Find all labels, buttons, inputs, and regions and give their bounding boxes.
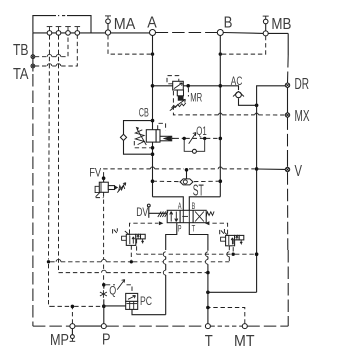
relief valve MR [167,76,188,111]
gauge point 4 in block [75,27,81,36]
svg-text:DV: DV [136,205,148,219]
svg-text:DR: DR [295,76,310,93]
wire: drain column up and to DR port [257,86,286,106]
wire: V pilot rail from FV to drain column [104,167,255,177]
wire: A yoke into DV port A [153,197,184,211]
svg-text:MR: MR [190,90,202,104]
port relief valve right (on b-pilot) [220,229,244,262]
check valve AC [233,91,244,97]
svg-text:B: B [224,15,233,32]
port MP gauge symbol [70,329,76,342]
pilot rail y=306.4 from gauge1 corner to P [50,305,102,307]
wire: DV T stem to T-line [189,223,208,251]
wire: B-line vertical [219,36,221,197]
pilot line into DV left end [130,221,164,234]
svg-text:TA: TA [13,66,29,83]
port B [217,30,223,36]
wire: ST right input from B-line [194,180,220,182]
svg-text:MT: MT [234,333,255,350]
throttle Q1 [189,133,196,144]
gauge point 2 in block [56,27,62,36]
gauge isolator block (top-left box) [33,14,91,33]
junction right valve / spring rail [232,253,235,256]
wire: MP up to pilot rail [71,308,73,324]
wire: Q1 pilot rail [175,137,220,139]
junction drain/V pilot [255,167,259,171]
wire: ST left input from A-line [153,180,180,182]
check valve in CB bypass [120,134,126,140]
orifice mark asterisk [100,290,107,298]
wire: MB to B-line [222,36,266,54]
svg-text:MA: MA [114,16,136,33]
junction T-line/MT [206,306,210,310]
junction FV top [102,176,106,180]
svg-text:TB: TB [13,42,29,59]
junction B-line/MR rail [219,84,223,88]
wire: CB bypass loop [124,121,153,155]
pilot rail y=261.8 (gauge1 to valves) [50,259,229,261]
junction P rail [102,304,106,308]
wire: TB to gauge 3 [35,35,68,57]
enclosure boundary left edge [32,33,34,326]
svg-text:CB: CB [139,106,149,120]
shuttle valve ST [180,168,193,185]
port MB [263,31,268,36]
reducing valve FV [95,178,126,285]
port MA [105,30,110,35]
wire: AC check to drain column [239,98,257,105]
svg-text:A: A [178,201,182,211]
wire: P port up [103,299,105,323]
pilot rail y=272.6 (gauge2 to T-line), jumps [59,270,207,272]
junction A-line/ST pilot [151,179,155,183]
DV spring right [206,211,214,216]
wire: TA to gauge 4 [35,35,78,66]
wire: MT to T-line [210,308,245,324]
gauge point 1 in block [47,27,53,36]
wire: MA to A-line [108,35,151,54]
junction B-line/Q1 rail [219,137,223,141]
svg-text:PC: PC [140,294,152,308]
wire: MR drain / MX pilot rail [173,91,285,115]
enclosure boundary top edge [33,32,288,35]
port TA [31,64,35,68]
wire: pump column to PC outlet [132,309,166,314]
svg-text:T: T [192,224,196,234]
svg-text:T: T [205,333,213,350]
pilot arrow into CB [160,136,175,141]
junction Q1 right [203,137,206,140]
junction A-line/MR rail [151,84,155,88]
wire: gauge line 1 to MP/P rail [49,264,51,306]
svg-text:MP: MP [50,332,69,349]
port DR [285,83,289,87]
junction B-line/ST pilot [219,179,223,183]
wire: DV P stem to pump column [166,223,177,250]
svg-text:MX: MX [295,108,310,125]
pressure compensator PC [126,293,138,309]
pilot with orifice Q to PC [106,280,132,294]
svg-text:FV: FV [89,166,101,180]
wire: B-line to AC check valve [220,86,238,90]
wire: gauge line 2 down [58,35,60,272]
wire: A-line vertical (CB to yoke) [152,142,154,197]
port relief valve left (on a-pilot) [113,228,146,260]
wire: B yoke into DV port B [189,197,220,211]
port A [150,30,156,36]
wire: MR rail from A-line to B-line [153,85,221,87]
junction Q1 left [183,137,186,140]
svg-text:Q: Q [109,284,116,298]
svg-text:V: V [295,163,303,180]
port T [205,324,210,329]
wire: drain column to T-line [208,291,257,293]
junction MB/B-line [219,52,222,55]
DV left position arrows [170,212,178,222]
DV proportional solenoid left [147,204,168,218]
wire: P to PC inlet [104,305,126,307]
junction MA/A-line [151,52,154,55]
junction A-line/CB pilot [151,146,155,150]
junction gauge1/pilot rail [47,260,50,263]
svg-text:A: A [147,15,157,32]
counterbalance valve CB [134,123,165,148]
enclosure boundary right edge [287,33,290,326]
pilot rail y=254 (spring chambers to drain) [137,253,255,255]
DV centre position [182,215,188,217]
svg-text:ST: ST [193,182,204,199]
junction A-line/CB bypass top [151,119,155,123]
port TB [31,55,35,59]
port V [285,167,289,171]
svg-text:MB: MB [271,16,291,33]
junction drain/T-line [206,291,210,295]
directional valve DV body [167,210,206,222]
junction MP rail [71,305,75,309]
svg-text:Q1: Q1 [196,124,207,138]
svg-text:AC: AC [231,74,243,88]
pump column with jumps over pilot rails [163,252,165,315]
junction A-line/CB bypass bottom [151,152,155,156]
port MX [285,113,289,117]
svg-text:P: P [178,224,182,234]
T-line with jumps over pilot rails [205,252,207,324]
port MB gauge symbol [263,16,269,31]
port P [101,324,106,329]
wire: A-line vertical (A port to CB) [152,36,154,131]
junction P/Q pilot [102,283,106,287]
junction drain/spring rail [255,252,259,256]
gauge point 3 in block [65,27,71,36]
wire: gauge line 1 down from block [49,35,50,259]
svg-text:P: P [102,332,111,349]
junction MR outlet [186,84,190,88]
DV right position crossed arrows [195,212,204,222]
pilot line into DV right end [205,221,228,234]
port MP [70,324,75,329]
svg-text:B: B [192,201,196,211]
wire: drain column down [256,105,258,292]
junction T-line/gauge2 rail [206,271,210,275]
enclosure boundary bottom edge [33,325,288,327]
port MA gauge symbol [105,16,111,30]
junction left valve / pilot-a rail [130,260,133,263]
wire: V pilot to V port [257,168,286,170]
port MT [242,324,247,329]
junction AC/drain column [255,104,259,108]
check valve bypass under Q1 [184,138,205,153]
